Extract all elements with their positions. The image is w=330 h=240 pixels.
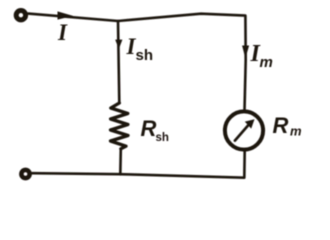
svg-text:R: R <box>141 116 157 141</box>
svg-text:sh: sh <box>136 47 154 64</box>
svg-text:m: m <box>260 54 273 71</box>
svg-text:sh: sh <box>156 132 169 144</box>
svg-text:I: I <box>57 20 68 45</box>
svg-text:m: m <box>290 124 302 139</box>
svg-text:R: R <box>273 113 289 138</box>
